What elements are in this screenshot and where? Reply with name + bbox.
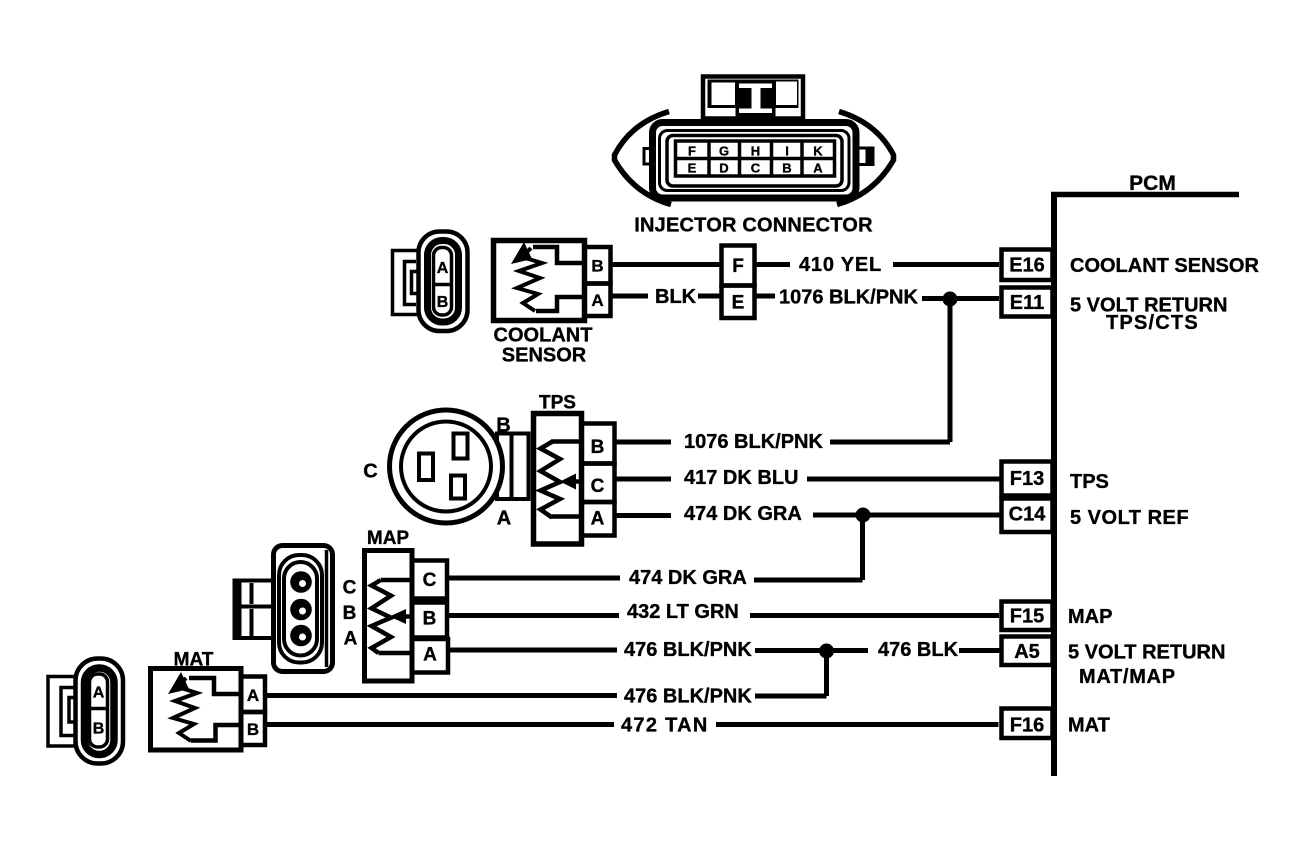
wire 476 BLK/PNK to junction [755,648,868,653]
svg-text:TPS: TPS [1070,471,1109,493]
svg-text:B: B [343,603,357,624]
TPS potentiometer [534,393,615,545]
MAP face pin A bullseye [290,625,312,647]
wire 474 DK GRA to C14 [813,513,1001,518]
svg-text:A: A [423,645,437,666]
PCM top edge [1051,192,1239,198]
TPS face inner circle [401,422,491,512]
label 432 LT GRN [624,601,959,661]
svg-text:476 BLK/PNK: 476 BLK/PNK [624,686,752,708]
MAP face shell [274,546,333,672]
label COOLANT SENSOR [494,325,593,367]
svg-text:TPS: TPS [539,393,576,414]
TPS face side tab [497,434,529,500]
injector connector left bump [644,149,651,165]
coolant face left tab [393,251,419,315]
TPS face slot bottom [451,476,465,499]
injector connector top tab [703,77,803,119]
svg-text:B: B [93,721,105,738]
PCM pin E16 box [1002,250,1053,281]
svg-text:A5: A5 [1014,641,1040,663]
PCM pin C14 box [1002,499,1053,533]
svg-text:PCM: PCM [1129,172,1176,195]
svg-text:E11: E11 [1010,292,1044,314]
svg-text:A: A [813,161,823,176]
svg-text:F16: F16 [1010,715,1044,737]
PCM pin F15 box [1002,602,1053,631]
svg-text:C: C [343,578,357,599]
svg-text:A: A [591,291,603,310]
svg-text:F: F [732,256,744,277]
MAP pot wiper arrow [402,614,412,619]
TPS pin A box [582,502,615,536]
svg-text:SENSOR: SENSOR [502,345,587,367]
PCM signal labels [1068,255,1259,737]
coolant sensor box [494,241,585,321]
wire TPS A stub [615,513,672,518]
coolant sensor connector face [393,232,468,332]
svg-text:432 LT GRN: 432 LT GRN [627,601,739,623]
svg-text:A: A [247,686,259,705]
TPS pot bottom lead [551,514,582,519]
svg-text:MAP: MAP [367,528,410,549]
wire MAP B stub [447,613,619,618]
wire vertical 1076 BLK/PNK [948,299,953,443]
svg-text:A: A [344,629,358,650]
svg-text:1076 BLK/PNK: 1076 BLK/PNK [779,287,918,309]
svg-text:410 YEL: 410 YEL [799,254,882,276]
coolant face shell [419,232,468,332]
TPS pot zigzag [541,442,561,518]
wire 476 BLK/PNK lower to junction [755,694,827,699]
svg-text:B: B [782,161,791,176]
MAT box [151,669,242,751]
wire 1076 BLK/PNK to E11 [922,296,999,301]
MAT pin A box [241,677,265,713]
MAT face left tab [48,677,76,747]
MAP connector face (3-pin) [235,546,333,672]
wire 432 LT GRN to F15 [750,613,999,618]
injector pin E box [722,286,755,319]
wire F to 410 YEL [755,262,791,267]
svg-text:C: C [363,461,377,483]
svg-text:COOLANT SENSOR: COOLANT SENSOR [1070,255,1259,277]
TPS face slot top [454,434,468,459]
svg-text:D: D [719,161,728,176]
TPS face slot left [419,454,433,481]
MAT connector face (2-pin) [48,659,123,764]
coolant sensor (thermistor) [494,241,611,367]
svg-text:E: E [688,161,697,176]
coolant pin B box [585,247,611,284]
MAP pin A box [412,639,448,673]
MAP box [365,551,413,682]
svg-text:MAT: MAT [1068,715,1110,737]
coolant thermistor arrow [511,242,532,264]
wire 1076 BLK/PNK horizontal from TPS B [830,440,950,445]
MAP pin C box [412,561,447,599]
wires MAT to PCM [265,696,999,725]
wire 476 BLK to A5 [959,648,1001,653]
MAP face left tab [235,581,274,639]
coolant thermistor zigzag [517,248,542,311]
injector connector body [653,123,857,199]
svg-text:474 DK GRA: 474 DK GRA [684,503,802,525]
wire coolant A stub [611,294,649,299]
svg-text:E16: E16 [1009,255,1045,277]
injector connector left wing [615,112,672,205]
label 1076 BLK/PNK lower [629,431,823,589]
svg-text:I: I [785,144,789,159]
injector pin F box [722,246,755,319]
MAP face pin B bullseye [290,599,312,621]
svg-text:A: A [93,685,105,702]
wire vertical 476 BLK/PNK [824,651,829,696]
svg-text:1076 BLK/PNK: 1076 BLK/PNK [684,431,823,453]
svg-text:MAP: MAP [1068,606,1112,628]
wire E stub [755,294,776,299]
MAT face shell [76,659,124,764]
PCM pin E11 box [1002,288,1053,317]
svg-text:476 BLK/PNK: 476 BLK/PNK [624,639,752,661]
svg-text:F15: F15 [1010,606,1044,628]
MAP pot bottom lead [379,651,413,656]
svg-text:417 DK BLU: 417 DK BLU [684,467,798,489]
wire MAP C stub [448,576,620,581]
svg-text:C14: C14 [1009,504,1047,526]
label BLK [655,254,918,309]
svg-text:B: B [496,415,510,437]
svg-text:C: C [423,570,437,591]
svg-text:B: B [591,257,603,276]
svg-text:5 VOLT RETURN: 5 VOLT RETURN [1068,642,1225,664]
svg-text:472 TAN: 472 TAN [621,715,709,737]
MAT pin B box [241,712,265,745]
MAP pot zigzag [372,580,392,653]
MAP pot top lead [381,578,412,583]
TPS pot wiper arrow [573,479,582,484]
wires MAP to PCM [447,578,1001,696]
injector connector pin grid [676,141,835,176]
wire 474 DK GRA lower horizontal [754,578,863,583]
TPS face outer circle [390,410,503,523]
svg-text:B: B [423,609,437,630]
TPS pin B box [582,424,615,464]
svg-text:INJECTOR CONNECTOR: INJECTOR CONNECTOR [634,215,873,237]
wire coolant B to F [611,265,1000,443]
svg-text:C: C [591,476,605,497]
svg-text:BLK: BLK [655,286,697,308]
wires TPS to PCM [615,442,1002,580]
svg-text:B: B [591,437,605,458]
MAT thermistor arrow [168,672,189,694]
svg-text:474 DK GRA: 474 DK GRA [629,567,747,589]
MAP sensor potentiometer [343,528,448,681]
coolant sensor link to pin B [533,247,585,263]
wire vertical 474 DK GRA [860,515,865,580]
TPS pot top lead [551,439,582,444]
wire MAP A stub [448,648,617,653]
wire MAT B stub [265,722,614,727]
PCM pin F13 box [1002,462,1053,496]
MAT link to pin A [189,678,241,694]
coolant sensor link to pin A [536,297,585,311]
MAP pin letters CBA left of box [343,578,358,650]
svg-text:F13: F13 [1010,468,1044,490]
node junction 474 DK GRA [856,508,871,523]
wire MAT A stub [265,693,617,698]
svg-text:476 BLK: 476 BLK [878,639,959,661]
coolant pin A box [585,284,611,317]
svg-text:E: E [732,293,745,314]
MAT face pin pill [90,674,108,747]
injector connector right stub [858,148,873,165]
svg-text:A: A [497,508,511,530]
svg-text:MAT/MAP: MAT/MAP [1079,666,1176,688]
TPS connector face (round) [363,410,528,530]
svg-text:B: B [437,294,449,311]
PCM vertical edge [1051,195,1057,777]
node junction 1076 BLK/PNK [943,292,958,307]
MAT sensor (thermistor) [151,650,266,751]
svg-text:5 VOLT REF: 5 VOLT REF [1070,507,1189,529]
svg-text:COOLANT: COOLANT [494,325,593,347]
injector connector J1 [615,77,894,237]
svg-text:TPS/CTS: TPS/CTS [1106,312,1199,334]
svg-text:B: B [247,720,259,739]
wire TPS B stub [615,440,672,445]
MAP pin B box [412,603,447,638]
injector connector right wing [837,112,894,205]
TPS box [534,414,582,545]
label 476 BLK/PNK lower [621,686,752,737]
svg-text:A: A [591,509,605,530]
wire BLK to E [698,294,722,299]
coolant face pin pill [434,248,452,316]
svg-text:G: G [719,144,729,159]
node junction 476 BLK/PNK [819,644,834,659]
PCM module [1002,172,1240,776]
svg-text:A: A [437,260,449,277]
MAT thermistor zigzag [173,678,197,741]
PCM pin A5 box [1002,637,1053,666]
injector connector pin letters row FGHIK [688,144,824,176]
MAP face pin C bullseye [290,571,312,593]
wire 472 TAN to F16 [716,722,999,727]
MAT link to pin B [191,725,241,741]
svg-text:C: C [751,161,761,176]
wire 417 DK BLU to F13 [807,477,1001,482]
svg-text:H: H [751,144,760,159]
svg-text:K: K [813,144,823,159]
svg-text:F: F [688,144,696,159]
wire 410 YEL to E16 [893,262,999,267]
TPS pin C box [582,464,615,503]
PCM pin F16 box [1002,709,1053,739]
svg-text:MAT: MAT [174,650,214,671]
wire TPS C stub [615,477,672,482]
